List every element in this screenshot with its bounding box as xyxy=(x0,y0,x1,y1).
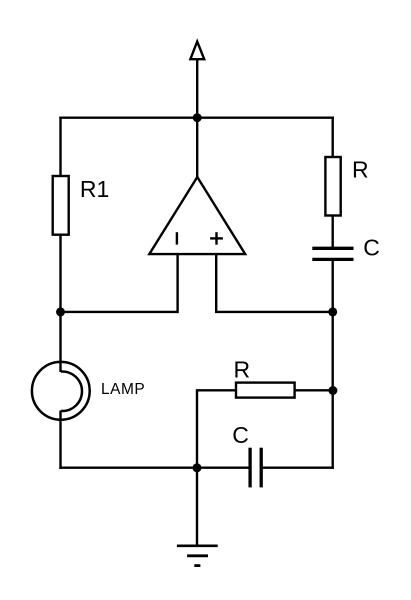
wire: feedback resistor left lead xyxy=(197,390,237,469)
wire: right rail lower segment xyxy=(332,260,334,469)
wire: supply arrow to op-amp output xyxy=(196,60,198,179)
wire: inverting input to left node xyxy=(59,253,177,312)
junction: right rail feedback node xyxy=(328,386,337,395)
junction: bottom center node xyxy=(193,463,202,472)
wire: feedback resistor right lead xyxy=(295,389,334,391)
resistor R1 body xyxy=(53,176,69,235)
wire: left rail upper segment xyxy=(59,117,61,178)
svg-text:R: R xyxy=(234,356,251,382)
op-amp U1 triangle xyxy=(149,177,245,254)
svg-text:C: C xyxy=(363,235,380,261)
junction: left rail mid node xyxy=(56,307,65,316)
svg-text:R: R xyxy=(352,156,369,182)
ground symbol xyxy=(177,546,218,566)
power supply arrow V+ xyxy=(190,42,204,60)
op-amp non-inverting input plus sign xyxy=(210,232,223,245)
wire: non-inverting input to right node xyxy=(216,253,334,312)
capacitor C (bottom) plates xyxy=(250,448,261,488)
capacitor C (right) plates xyxy=(312,248,353,259)
resistor R (feedback) body xyxy=(236,383,295,398)
wire: left rail lower segment xyxy=(59,411,61,469)
svg-text:LAMP: LAMP xyxy=(101,381,145,398)
resistor R (right) body xyxy=(325,157,340,216)
wire: right rail upper segment xyxy=(332,117,334,248)
svg-text:C: C xyxy=(232,422,249,448)
lamp bulb symbol xyxy=(32,362,90,420)
junction: top center node xyxy=(193,113,202,122)
op-amp inverting input minus sign xyxy=(176,232,178,244)
wire: left rail middle segment xyxy=(59,233,61,372)
junction: right rail mid node xyxy=(328,307,337,316)
wire: bottom rail left of capacitor xyxy=(59,467,250,469)
wire: top horizontal rail (V+ node) xyxy=(59,116,334,118)
wire: ground lead xyxy=(196,468,198,546)
wire: bottom rail right of capacitor xyxy=(261,467,334,469)
svg-text:R1: R1 xyxy=(80,176,109,202)
